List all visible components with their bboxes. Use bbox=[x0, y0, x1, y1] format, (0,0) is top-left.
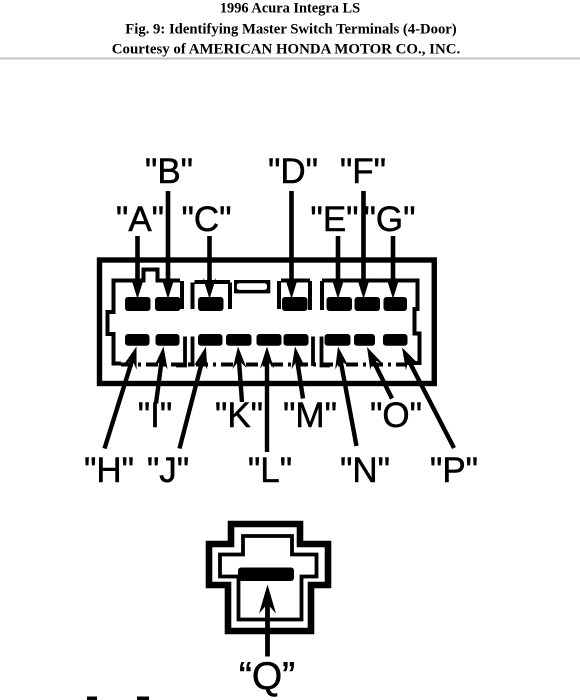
svg-text:"B": "B" bbox=[145, 152, 193, 191]
svg-text:Fig. 9: Identifying Master Swi: Fig. 9: Identifying Master Switch Termin… bbox=[125, 22, 457, 38]
svg-text:"M": "M" bbox=[283, 396, 337, 435]
svg-text:"C": "C" bbox=[181, 200, 231, 239]
svg-text:"H": "H" bbox=[84, 451, 134, 490]
svg-text:"I": "I" bbox=[138, 396, 173, 435]
svg-text:"F": "F" bbox=[340, 152, 386, 191]
svg-text:"N": "N" bbox=[340, 451, 390, 490]
svg-text:"E": "E" bbox=[310, 200, 358, 239]
svg-text:Courtesy of AMERICAN HONDA MOT: Courtesy of AMERICAN HONDA MOTOR CO., IN… bbox=[112, 42, 461, 58]
svg-text:"G": "G" bbox=[363, 200, 415, 239]
svg-text:"J": "J" bbox=[147, 451, 189, 490]
svg-text:"D": "D" bbox=[268, 152, 318, 191]
svg-text:"O": "O" bbox=[370, 396, 422, 435]
svg-text:"P": "P" bbox=[430, 451, 478, 490]
svg-text:1996 Acura Integra LS: 1996 Acura Integra LS bbox=[220, 0, 360, 16]
svg-text:"L": "L" bbox=[248, 451, 292, 490]
svg-text:"A": "A" bbox=[116, 200, 164, 239]
svg-text:"K": "K" bbox=[215, 396, 263, 435]
svg-text:“Q”: “Q” bbox=[239, 655, 295, 698]
